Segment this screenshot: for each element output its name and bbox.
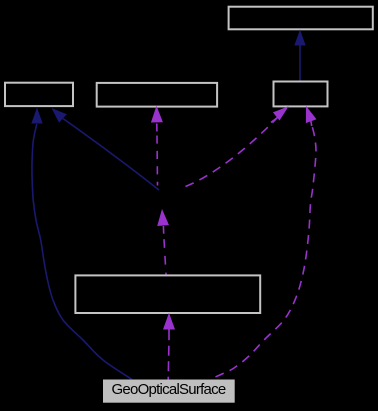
svg-text:GeoOpticalSurface: GeoOpticalSurface [112, 381, 226, 398]
